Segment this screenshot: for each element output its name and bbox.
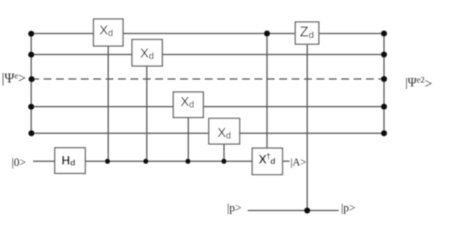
wire right bracket bbox=[383, 34, 385, 134]
node dot right 5 bbox=[381, 130, 387, 136]
wire control 3 bbox=[187, 117, 189, 162]
wire bbox=[240, 132, 384, 134]
svg-text:|p>: |p> bbox=[341, 203, 356, 215]
svg-text:|Ψe>: |Ψe> bbox=[2, 70, 27, 85]
gate X4 box bbox=[209, 118, 240, 144]
wire ancilla bbox=[33, 160, 55, 162]
svg-text:|Ψe2>: |Ψe2> bbox=[405, 75, 432, 92]
node dot ancilla 1 bbox=[105, 159, 110, 164]
wire bbox=[31, 33, 93, 35]
wire bbox=[31, 54, 132, 56]
svg-text:|A>: |A> bbox=[290, 156, 306, 168]
gate X1 box bbox=[94, 19, 124, 46]
wire bbox=[162, 54, 384, 56]
wire control 5 bbox=[266, 34, 268, 149]
node dot right 1 bbox=[381, 31, 387, 37]
svg-text:|0>: |0> bbox=[12, 157, 27, 169]
wire left bracket bbox=[30, 34, 32, 134]
gate X2 box bbox=[132, 40, 162, 67]
node dot ancilla 3 bbox=[185, 159, 190, 164]
node dot right 2 bbox=[381, 52, 387, 58]
gate Xdag box bbox=[252, 148, 282, 175]
node dot ancilla 2 bbox=[143, 159, 148, 164]
node dot left 1 bbox=[28, 31, 34, 37]
wire bbox=[31, 132, 209, 134]
node dot ancilla 4 bbox=[221, 159, 226, 164]
gate Hd box bbox=[55, 148, 85, 174]
node control dot p bbox=[304, 208, 310, 214]
wire control 4 bbox=[223, 144, 225, 161]
node dot right 3 bbox=[381, 76, 387, 82]
wire control 6 bbox=[306, 45, 308, 211]
wire control 1 bbox=[107, 46, 109, 161]
gate Zd box bbox=[295, 22, 319, 44]
node control dot wire1 bbox=[264, 31, 270, 37]
wire control 2 bbox=[146, 66, 148, 161]
wire ancilla bbox=[85, 160, 252, 162]
wire (dashed) bbox=[31, 78, 384, 80]
wire bbox=[203, 106, 384, 108]
wire ancilla out bbox=[283, 160, 290, 162]
wire bbox=[31, 106, 173, 108]
wire bbox=[123, 33, 295, 35]
gate X3 box bbox=[173, 92, 203, 118]
node dot left 2 bbox=[28, 52, 34, 58]
svg-text:|p>: |p> bbox=[227, 203, 242, 215]
node dot left 5 bbox=[28, 130, 34, 136]
wire p bbox=[248, 210, 339, 212]
node dot left 3 bbox=[29, 76, 35, 82]
node dot left 4 bbox=[28, 104, 34, 110]
node dot right 4 bbox=[381, 104, 387, 110]
wire bbox=[319, 33, 384, 35]
